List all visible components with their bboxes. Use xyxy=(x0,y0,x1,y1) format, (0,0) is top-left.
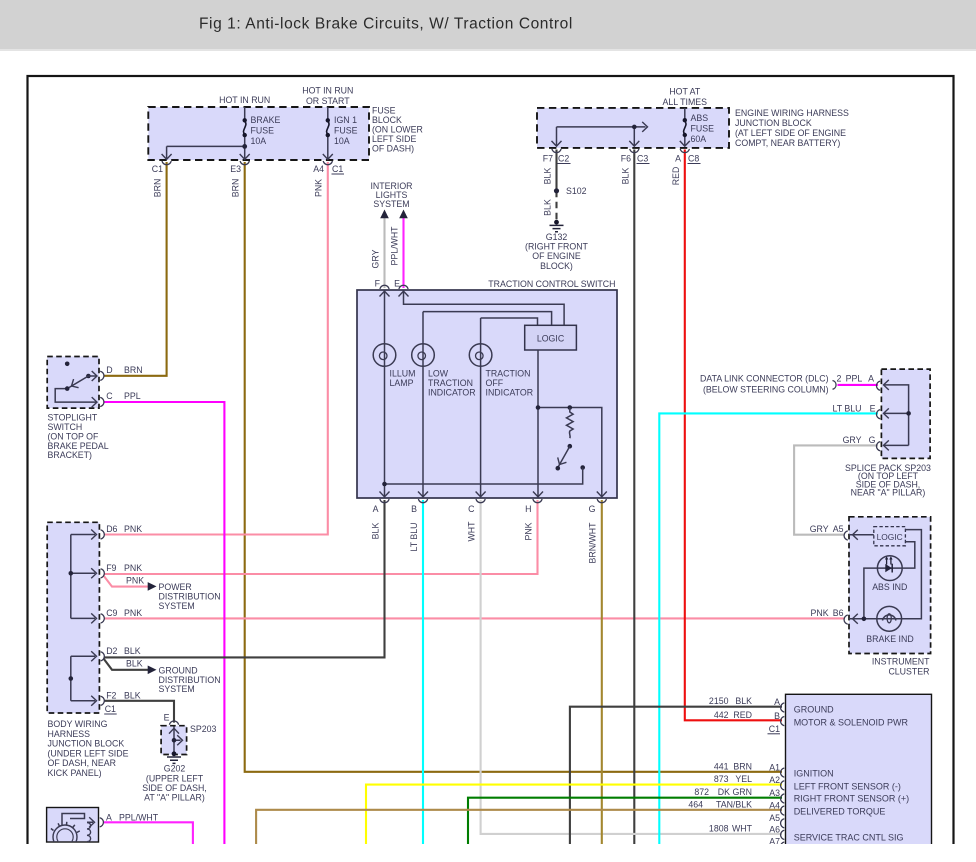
svg-text:BLOCK): BLOCK) xyxy=(540,261,573,271)
svg-text:C1: C1 xyxy=(152,164,163,174)
svg-text:10A: 10A xyxy=(251,136,267,146)
svg-text:BRACKET): BRACKET) xyxy=(48,450,93,460)
svg-text:TRACTION: TRACTION xyxy=(428,378,473,388)
svg-text:BLK: BLK xyxy=(124,691,141,701)
svg-text:BLK: BLK xyxy=(735,696,752,706)
svg-text:OF DASH): OF DASH) xyxy=(372,144,414,154)
svg-text:C1: C1 xyxy=(105,704,116,714)
svg-text:LEFT SIDE: LEFT SIDE xyxy=(372,134,416,144)
svg-text:B: B xyxy=(411,504,417,514)
svg-text:C: C xyxy=(106,391,113,401)
svg-text:(AT LEFT SIDE OF ENGINE: (AT LEFT SIDE OF ENGINE xyxy=(735,128,846,138)
svg-text:SIDE OF DASH,: SIDE OF DASH, xyxy=(142,783,207,793)
svg-text:F7: F7 xyxy=(543,154,553,164)
svg-text:A4: A4 xyxy=(769,800,780,810)
svg-text:NEAR "A" PILLAR): NEAR "A" PILLAR) xyxy=(851,488,926,498)
svg-text:JUNCTION BLOCK: JUNCTION BLOCK xyxy=(48,739,125,749)
svg-text:B: B xyxy=(774,711,780,721)
svg-text:RED: RED xyxy=(733,710,752,720)
svg-text:(UPPER LEFT: (UPPER LEFT xyxy=(146,773,204,783)
svg-text:DELIVERED TORQUE: DELIVERED TORQUE xyxy=(794,807,886,817)
svg-text:HOT IN RUN: HOT IN RUN xyxy=(302,86,353,96)
svg-text:RED: RED xyxy=(671,167,681,186)
svg-text:PNK: PNK xyxy=(124,608,142,618)
svg-text:A6: A6 xyxy=(769,825,780,835)
svg-text:E3: E3 xyxy=(230,164,241,174)
svg-text:F6: F6 xyxy=(621,154,631,164)
svg-text:BLK: BLK xyxy=(371,523,381,540)
svg-text:ALL TIMES: ALL TIMES xyxy=(663,97,708,107)
svg-text:BLK: BLK xyxy=(621,168,631,185)
svg-text:PPL: PPL xyxy=(846,374,863,384)
svg-text:A: A xyxy=(868,374,874,384)
svg-text:TAN/BLK: TAN/BLK xyxy=(716,799,752,809)
svg-text:(ON LOWER: (ON LOWER xyxy=(372,125,423,135)
svg-text:D6: D6 xyxy=(106,524,117,534)
svg-text:WHT: WHT xyxy=(467,521,477,542)
svg-text:E: E xyxy=(164,713,170,723)
svg-text:60A: 60A xyxy=(691,134,707,144)
svg-text:A: A xyxy=(373,504,379,514)
svg-text:(UNDER LEFT SIDE: (UNDER LEFT SIDE xyxy=(48,748,129,758)
svg-text:SYSTEM: SYSTEM xyxy=(159,601,195,611)
svg-text:OR START: OR START xyxy=(306,96,350,106)
svg-text:C1: C1 xyxy=(769,724,780,734)
svg-text:GRY: GRY xyxy=(810,524,829,534)
svg-text:KICK PANEL): KICK PANEL) xyxy=(48,768,102,778)
svg-text:G: G xyxy=(869,435,876,445)
svg-text:SYSTEM: SYSTEM xyxy=(159,684,195,694)
svg-text:F9: F9 xyxy=(106,563,116,573)
svg-text:BRN: BRN xyxy=(733,761,752,771)
svg-text:TRACTION: TRACTION xyxy=(486,369,531,379)
svg-text:PPL: PPL xyxy=(124,391,141,401)
svg-text:RIGHT FRONT SENSOR (+): RIGHT FRONT SENSOR (+) xyxy=(794,794,909,804)
svg-text:FUSE: FUSE xyxy=(691,124,715,134)
svg-text:INSTRUMENT: INSTRUMENT xyxy=(872,657,930,667)
svg-text:A: A xyxy=(774,697,780,707)
svg-text:GRY: GRY xyxy=(843,435,862,445)
svg-text:C1: C1 xyxy=(332,164,343,174)
svg-text:WHT: WHT xyxy=(732,824,753,834)
svg-text:GRY: GRY xyxy=(371,249,381,268)
svg-text:2: 2 xyxy=(837,374,842,384)
svg-text:A1: A1 xyxy=(769,762,780,772)
svg-text:A5: A5 xyxy=(833,524,844,534)
svg-text:INDICATOR: INDICATOR xyxy=(486,388,534,398)
svg-text:SP203: SP203 xyxy=(190,724,217,734)
svg-text:G202: G202 xyxy=(164,764,186,774)
svg-text:BRN: BRN xyxy=(124,365,143,375)
svg-text:A3: A3 xyxy=(769,788,780,798)
svg-text:COMPT, NEAR BATTERY): COMPT, NEAR BATTERY) xyxy=(735,138,840,148)
svg-text:BLOCK: BLOCK xyxy=(372,115,402,125)
svg-text:ABS IND: ABS IND xyxy=(872,582,907,592)
svg-text:LEFT FRONT SENSOR (-): LEFT FRONT SENSOR (-) xyxy=(794,781,901,791)
svg-text:FUSE: FUSE xyxy=(372,106,396,116)
svg-text:PNK: PNK xyxy=(124,563,142,573)
svg-text:A2: A2 xyxy=(769,775,780,785)
svg-text:BLK: BLK xyxy=(124,646,141,656)
svg-text:BRAKE: BRAKE xyxy=(251,115,281,125)
svg-text:BRAKE IND: BRAKE IND xyxy=(866,634,913,644)
svg-text:2150: 2150 xyxy=(709,696,729,706)
svg-text:A: A xyxy=(675,154,681,164)
svg-text:PPL/WHT: PPL/WHT xyxy=(390,226,400,266)
svg-text:BODY WIRING: BODY WIRING xyxy=(48,719,108,729)
svg-text:SERVICE TRAC CNTL SIG: SERVICE TRAC CNTL SIG xyxy=(794,832,904,842)
svg-text:PNK: PNK xyxy=(124,524,142,534)
svg-text:HOT IN RUN: HOT IN RUN xyxy=(219,95,270,105)
svg-text:MOTOR & SOLENOID PWR: MOTOR & SOLENOID PWR xyxy=(794,718,909,728)
svg-text:DATA LINK CONNECTOR (DLC): DATA LINK CONNECTOR (DLC) xyxy=(700,374,829,384)
svg-text:INDICATOR: INDICATOR xyxy=(428,388,476,398)
svg-text:PNK: PNK xyxy=(811,608,829,618)
svg-text:LT BLU: LT BLU xyxy=(409,522,419,551)
svg-text:BLK: BLK xyxy=(126,659,143,669)
svg-text:F: F xyxy=(375,279,381,289)
svg-text:LT BLU: LT BLU xyxy=(832,403,861,413)
svg-text:JUNCTION BLOCK: JUNCTION BLOCK xyxy=(735,118,812,128)
svg-text:LAMP: LAMP xyxy=(390,378,414,388)
svg-text:PPL/WHT: PPL/WHT xyxy=(119,813,159,823)
svg-text:G132: G132 xyxy=(546,232,568,242)
svg-text:BLK: BLK xyxy=(543,199,553,216)
svg-text:LOGIC: LOGIC xyxy=(537,334,565,344)
svg-text:TRACTION CONTROL SWITCH: TRACTION CONTROL SWITCH xyxy=(488,279,615,289)
svg-text:ILLUM: ILLUM xyxy=(390,369,416,379)
svg-text:A4: A4 xyxy=(313,164,324,174)
svg-text:BRN: BRN xyxy=(153,179,163,198)
svg-text:SYSTEM: SYSTEM xyxy=(373,199,409,209)
svg-text:(RIGHT FRONT: (RIGHT FRONT xyxy=(525,242,589,252)
svg-text:DK GRN: DK GRN xyxy=(718,787,752,797)
svg-text:IGNITION: IGNITION xyxy=(794,769,834,779)
svg-text:FUSE: FUSE xyxy=(334,126,358,136)
svg-text:G: G xyxy=(589,504,596,514)
svg-text:D2: D2 xyxy=(106,646,117,656)
svg-text:HOT AT: HOT AT xyxy=(669,87,701,97)
svg-text:C3: C3 xyxy=(637,154,648,164)
svg-text:F2: F2 xyxy=(106,691,116,701)
svg-text:464: 464 xyxy=(688,799,703,809)
svg-text:HARNESS: HARNESS xyxy=(48,729,91,739)
svg-text:CLUSTER: CLUSTER xyxy=(888,666,929,676)
svg-text:FUSE: FUSE xyxy=(251,126,275,136)
svg-text:C2: C2 xyxy=(558,154,569,164)
svg-text:ABS: ABS xyxy=(691,113,709,123)
svg-text:A5: A5 xyxy=(769,813,780,823)
svg-text:B6: B6 xyxy=(833,608,844,618)
svg-text:BLK: BLK xyxy=(543,168,553,185)
svg-text:C9: C9 xyxy=(106,608,117,618)
svg-text:(BELOW STEERING COLUMN): (BELOW STEERING COLUMN) xyxy=(703,385,829,395)
svg-text:S102: S102 xyxy=(566,186,587,196)
svg-text:AT "A" PILLAR): AT "A" PILLAR) xyxy=(144,793,205,803)
svg-text:PNK: PNK xyxy=(524,522,534,540)
svg-text:PNK: PNK xyxy=(314,179,324,197)
svg-text:OFF: OFF xyxy=(486,378,504,388)
svg-text:PNK: PNK xyxy=(126,576,144,586)
svg-text:H: H xyxy=(525,504,531,514)
svg-text:OF ENGINE: OF ENGINE xyxy=(532,251,581,261)
svg-text:LOW: LOW xyxy=(428,369,449,379)
svg-text:BRN/WHT: BRN/WHT xyxy=(588,522,598,564)
svg-text:C8: C8 xyxy=(688,154,699,164)
svg-text:LOGIC: LOGIC xyxy=(877,532,903,542)
svg-text:C: C xyxy=(468,504,475,514)
svg-text:873: 873 xyxy=(714,774,729,784)
svg-text:E: E xyxy=(870,403,876,413)
svg-text:442: 442 xyxy=(714,710,729,720)
svg-text:OF DASH, NEAR: OF DASH, NEAR xyxy=(48,758,116,768)
svg-text:A: A xyxy=(106,813,112,823)
svg-text:BRN: BRN xyxy=(231,179,241,198)
svg-text:D: D xyxy=(106,365,112,375)
svg-text:Fig 1: Anti-lock Brake Circuit: Fig 1: Anti-lock Brake Circuits, W/ Trac… xyxy=(199,16,573,33)
svg-text:10A: 10A xyxy=(334,136,350,146)
svg-text:YEL: YEL xyxy=(735,774,752,784)
svg-text:1808: 1808 xyxy=(709,824,729,834)
svg-text:441: 441 xyxy=(714,761,729,771)
svg-text:872: 872 xyxy=(694,787,709,797)
svg-text:ENGINE WIRING HARNESS: ENGINE WIRING HARNESS xyxy=(735,108,849,118)
svg-text:IGN 1: IGN 1 xyxy=(334,115,357,125)
svg-text:GROUND: GROUND xyxy=(794,705,834,715)
